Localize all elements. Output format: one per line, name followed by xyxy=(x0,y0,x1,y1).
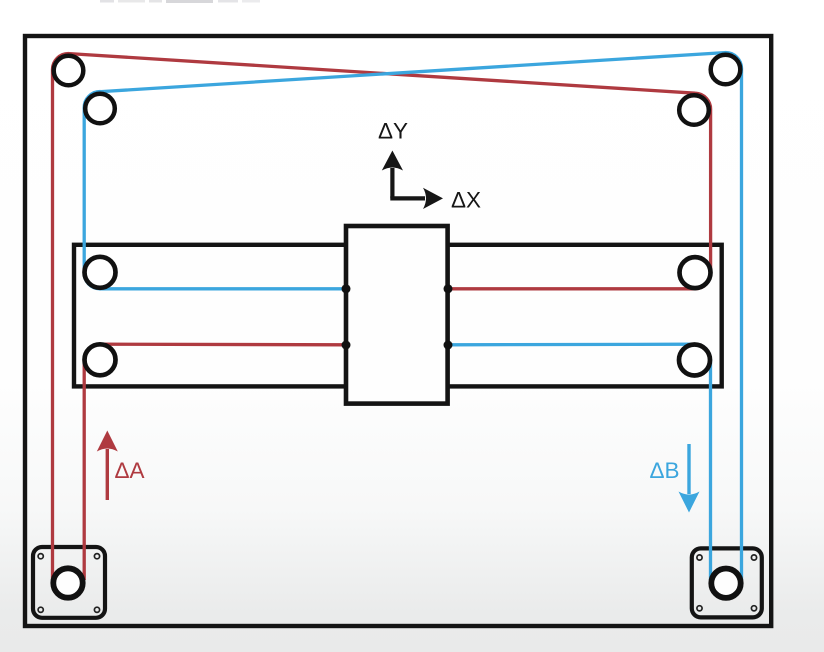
motor A mount holes xyxy=(38,554,99,613)
belt anchor dots xyxy=(342,284,453,349)
pulley TR1 xyxy=(711,55,741,85)
pulley gantry right bottom xyxy=(679,345,710,376)
svg-text:ΔA: ΔA xyxy=(115,458,145,483)
pulley gantry left top xyxy=(85,257,116,288)
arrow dB xyxy=(679,444,700,513)
axis arrow X xyxy=(390,188,443,209)
carriage xyxy=(346,226,448,404)
svg-text:ΔB: ΔB xyxy=(650,458,680,483)
svg-text:ΔY: ΔY xyxy=(378,119,408,144)
pulley TR2 xyxy=(679,95,709,125)
pulley TL2 xyxy=(85,94,115,124)
pulley gantry left bottom xyxy=(85,344,116,375)
belt A red xyxy=(52,54,710,580)
svg-text:ΔX: ΔX xyxy=(451,188,481,213)
motor A body xyxy=(33,547,105,618)
motor B shaft xyxy=(711,569,740,598)
motor A shaft xyxy=(53,568,82,597)
belt B blue xyxy=(84,53,741,580)
arrow dA xyxy=(97,431,118,501)
pulley gantry right top xyxy=(680,257,711,288)
motor B mount holes xyxy=(697,555,757,611)
motor B body xyxy=(692,548,762,617)
gantry rail xyxy=(74,245,722,387)
pulley TL1 xyxy=(54,56,84,86)
cropped text remnant top xyxy=(100,0,260,3)
axis arrow Y xyxy=(382,151,403,199)
